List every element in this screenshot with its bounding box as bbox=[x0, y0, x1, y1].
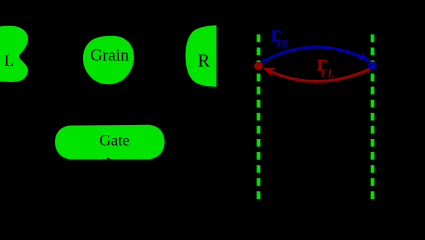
svg-text:TR: TR bbox=[275, 39, 288, 50]
svg-text:L: L bbox=[4, 53, 14, 70]
svg-text:FL: FL bbox=[320, 68, 334, 79]
svg-text:Gate: Gate bbox=[99, 133, 129, 150]
svg-text:Grain: Grain bbox=[90, 45, 129, 64]
svg-text:R: R bbox=[198, 50, 210, 70]
